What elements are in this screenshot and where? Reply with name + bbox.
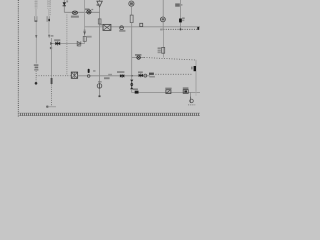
label above D2 xyxy=(54,39,60,41)
wire VB pair top xyxy=(47,0,50,16)
wire corner to H7 xyxy=(132,89,200,92)
wire VI xyxy=(162,29,164,57)
node dot K2 xyxy=(180,28,182,30)
connector P1 bottom right xyxy=(188,92,195,105)
wire VA mid xyxy=(35,22,37,35)
connector arrow B xyxy=(48,35,53,50)
wire H1 xyxy=(64,11,99,13)
diode D5 xyxy=(138,71,143,77)
wire VF xyxy=(84,0,86,44)
wire VA pair top xyxy=(35,0,38,16)
diode D3 open xyxy=(77,41,81,46)
label below H6 xyxy=(104,77,110,79)
node dot J3 xyxy=(131,75,133,77)
connector box X1 xyxy=(100,24,111,30)
resistor R5 dark xyxy=(133,88,139,93)
lamp branch H4 xyxy=(132,54,144,59)
dotted wire H6 xyxy=(36,75,71,77)
fuse circle F2 xyxy=(97,81,102,88)
contact K4 xyxy=(183,87,189,93)
wire VA lower xyxy=(35,39,37,64)
wire VC xyxy=(50,38,52,78)
diode D1 top xyxy=(63,0,69,12)
diode D7 vertical xyxy=(130,85,133,90)
relay box K1 xyxy=(71,72,77,78)
junction box X2 xyxy=(140,23,143,26)
node dot xyxy=(35,82,38,85)
label 24V xyxy=(175,3,182,6)
wire VB lower xyxy=(48,22,50,34)
diode D2 xyxy=(55,42,60,46)
lamp E1 xyxy=(71,11,79,18)
inductor L1 dark segment xyxy=(51,78,53,84)
label E/P xyxy=(149,73,155,78)
dotted branch H2b xyxy=(163,28,197,30)
terminal lug xyxy=(197,27,199,30)
motor M1 xyxy=(160,0,165,30)
arrow end xyxy=(50,42,52,45)
circle node xyxy=(144,74,147,77)
resistor R3 xyxy=(98,19,101,24)
wire VC dotted lower xyxy=(51,85,53,107)
node K terminal xyxy=(46,106,56,108)
connector arrow F xyxy=(83,31,86,35)
border dashed left edge xyxy=(17,0,19,117)
contact K3 xyxy=(165,88,171,94)
antenna W1 xyxy=(97,0,103,96)
switch S2 xyxy=(47,16,50,22)
capacitor C1 black xyxy=(179,17,185,22)
label above H6 xyxy=(108,74,112,75)
diode D4 xyxy=(117,71,124,78)
bus wire H2 xyxy=(85,26,200,28)
wire H6 solid xyxy=(78,75,150,77)
diode D6 vertical xyxy=(130,80,133,85)
capacitor C3 xyxy=(192,66,196,71)
dotted vertical VE xyxy=(66,15,68,76)
fuse F1 xyxy=(119,26,125,32)
wire H3 xyxy=(50,43,84,45)
capacitor C2 dark blob xyxy=(87,69,95,78)
connector arrow A xyxy=(35,35,37,39)
connector T1 label xyxy=(34,64,39,70)
dotted H4 right xyxy=(144,58,196,61)
wire VH main xyxy=(129,1,134,79)
dotted wire H5 xyxy=(155,73,191,75)
wire VK xyxy=(179,0,181,29)
resistor R2 xyxy=(83,36,91,42)
resistor R4 xyxy=(158,47,165,53)
terminal blob xyxy=(99,95,101,97)
switch S1 xyxy=(35,16,38,22)
wire VL right xyxy=(195,60,197,92)
lamp E2 xyxy=(85,8,93,14)
wire dotted below T1 xyxy=(35,71,37,82)
